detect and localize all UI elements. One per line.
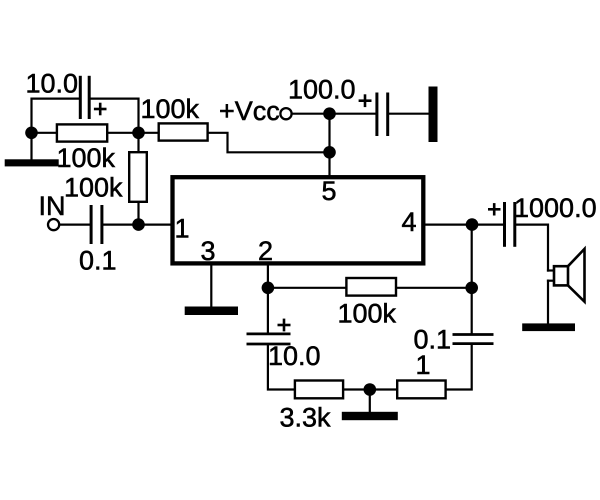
resistor R2 100k vertical: [129, 152, 147, 202]
svg-text:10.0: 10.0: [268, 341, 321, 371]
capacitor C5 0.1 plates: [453, 335, 494, 344]
wire R6 right up to C5: [447, 345, 472, 390]
svg-text:10.0: 10.0: [26, 69, 79, 99]
value label 0.1 (C5): [414, 325, 452, 355]
resistor R6 1: [397, 381, 445, 399]
svg-text:100k: 100k: [64, 173, 123, 203]
wire speaker bottom stub: [548, 280, 553, 282]
node B junction dot: [132, 127, 145, 140]
wire pin2 node to R4 left: [268, 287, 345, 289]
capacitor C6 plus sign: [488, 203, 501, 215]
svg-text:IN: IN: [39, 191, 66, 221]
value label 10.0 (C1): [26, 69, 79, 99]
wire C5 top to pin4 node: [471, 225, 473, 334]
svg-text:0.1: 0.1: [79, 246, 117, 276]
wire node to ground stem: [30, 133, 32, 160]
wire speaker to ground: [547, 281, 549, 324]
wire pin 4 to C6: [425, 224, 503, 226]
wire speaker top stub: [548, 269, 553, 271]
wire R3 right to pin5 node: [209, 133, 330, 153]
wire node to R3 left: [139, 132, 158, 134]
node D junction dot pin5: [323, 146, 336, 159]
svg-text:100k: 100k: [141, 94, 200, 124]
ground G1 left: [5, 159, 59, 166]
svg-text:3: 3: [201, 236, 216, 266]
wire pin 2 down to C4: [267, 265, 269, 332]
pin label 3: [201, 236, 216, 266]
value label 100k (R2): [64, 173, 123, 203]
resistor R5 3.3k: [295, 381, 343, 399]
svg-text:5: 5: [322, 176, 337, 206]
value label 1 (R6): [416, 350, 431, 380]
value label 1000.0 (C6): [514, 193, 597, 223]
capacitor C3 0.1 plates: [91, 205, 102, 244]
resistor R1 100k: [57, 124, 107, 141]
wire IN terminal to C3: [60, 224, 89, 226]
pin label 4: [402, 207, 417, 237]
node E junction dot input: [132, 218, 145, 231]
wire top-left cap left lead: [32, 99, 79, 133]
resistor R4 100k: [346, 278, 396, 296]
value label 10.0 (C4): [268, 341, 321, 371]
resistor R3 100k: [159, 123, 208, 140]
value label 0.1 (C3): [79, 246, 117, 276]
op-amp U1 IC body: [173, 177, 424, 263]
capacitor C2 plus sign: [359, 94, 372, 107]
ground G3 pin 3: [185, 307, 238, 316]
capacitor C4 10.0 plates: [247, 334, 291, 344]
capacitor C1 plus sign: [94, 103, 107, 116]
wire node to ground stem bottom: [369, 390, 371, 413]
wire R4 right to node: [397, 287, 472, 289]
ground G4 bottom: [342, 412, 398, 420]
svg-text:100k: 100k: [338, 299, 397, 329]
pin label 2: [258, 236, 273, 266]
svg-text:1: 1: [416, 350, 431, 380]
pin label 1: [175, 214, 190, 244]
ground G5 speaker: [522, 323, 575, 331]
wire top-left cap right lead: [91, 99, 139, 151]
wire Vcc node to C2: [330, 113, 376, 115]
svg-text:3.3k: 3.3k: [280, 403, 332, 433]
capacitor C4 plus sign: [278, 319, 291, 332]
node A junction dot: [25, 127, 38, 140]
node I junction dot bottom: [364, 383, 377, 396]
svg-text:100.0: 100.0: [288, 75, 356, 105]
svg-text:4: 4: [402, 207, 417, 237]
wire node to R6 left: [370, 388, 396, 390]
svg-text:1000.0: 1000.0: [514, 193, 597, 223]
svg-text:2: 2: [258, 236, 273, 266]
node F junction dot pin4: [466, 218, 479, 231]
value label 100k (R3): [141, 94, 200, 124]
wire pin 3 to ground: [210, 265, 212, 306]
value label 3.3k (R5): [280, 403, 332, 433]
capacitor C1 10.0 plates: [80, 76, 89, 119]
wire C4 bottom to R5: [268, 345, 294, 389]
wire R1 right to node: [108, 132, 138, 134]
wire C3 to pin 1: [103, 224, 170, 226]
node H junction dot feedback right: [465, 282, 478, 295]
terminal IN circle: [48, 219, 59, 230]
capacitor C6 1000.0 plates: [505, 202, 515, 247]
wire C2 to ground bar: [389, 113, 428, 115]
value label 100k (R4): [338, 299, 397, 329]
value label 100k (R1): [57, 143, 116, 173]
wire R5 right to node: [344, 388, 370, 390]
wire R2 bottom to input rail: [137, 203, 139, 225]
capacitor C2 100.0 plates: [377, 93, 388, 137]
wire Vcc terminal to node: [293, 113, 330, 115]
pin label 5: [322, 176, 337, 206]
label IN: [39, 191, 66, 221]
svg-text:1: 1: [175, 214, 190, 244]
node C junction dot Vcc: [323, 107, 336, 120]
label +Vcc: [219, 96, 280, 126]
ground G2 top right vertical bar: [429, 87, 438, 143]
terminal +Vcc circle: [280, 108, 291, 119]
wire Vcc node down to pin 5: [328, 114, 330, 176]
speaker SP1: [554, 249, 585, 302]
svg-text:100k: 100k: [57, 143, 116, 173]
wire C6 to speaker branch: [516, 225, 548, 271]
wire node to R1 left: [32, 132, 56, 134]
value label 100.0 (C2): [288, 75, 356, 105]
node G junction dot pin2: [262, 282, 275, 295]
svg-text:+Vcc: +Vcc: [219, 96, 280, 126]
